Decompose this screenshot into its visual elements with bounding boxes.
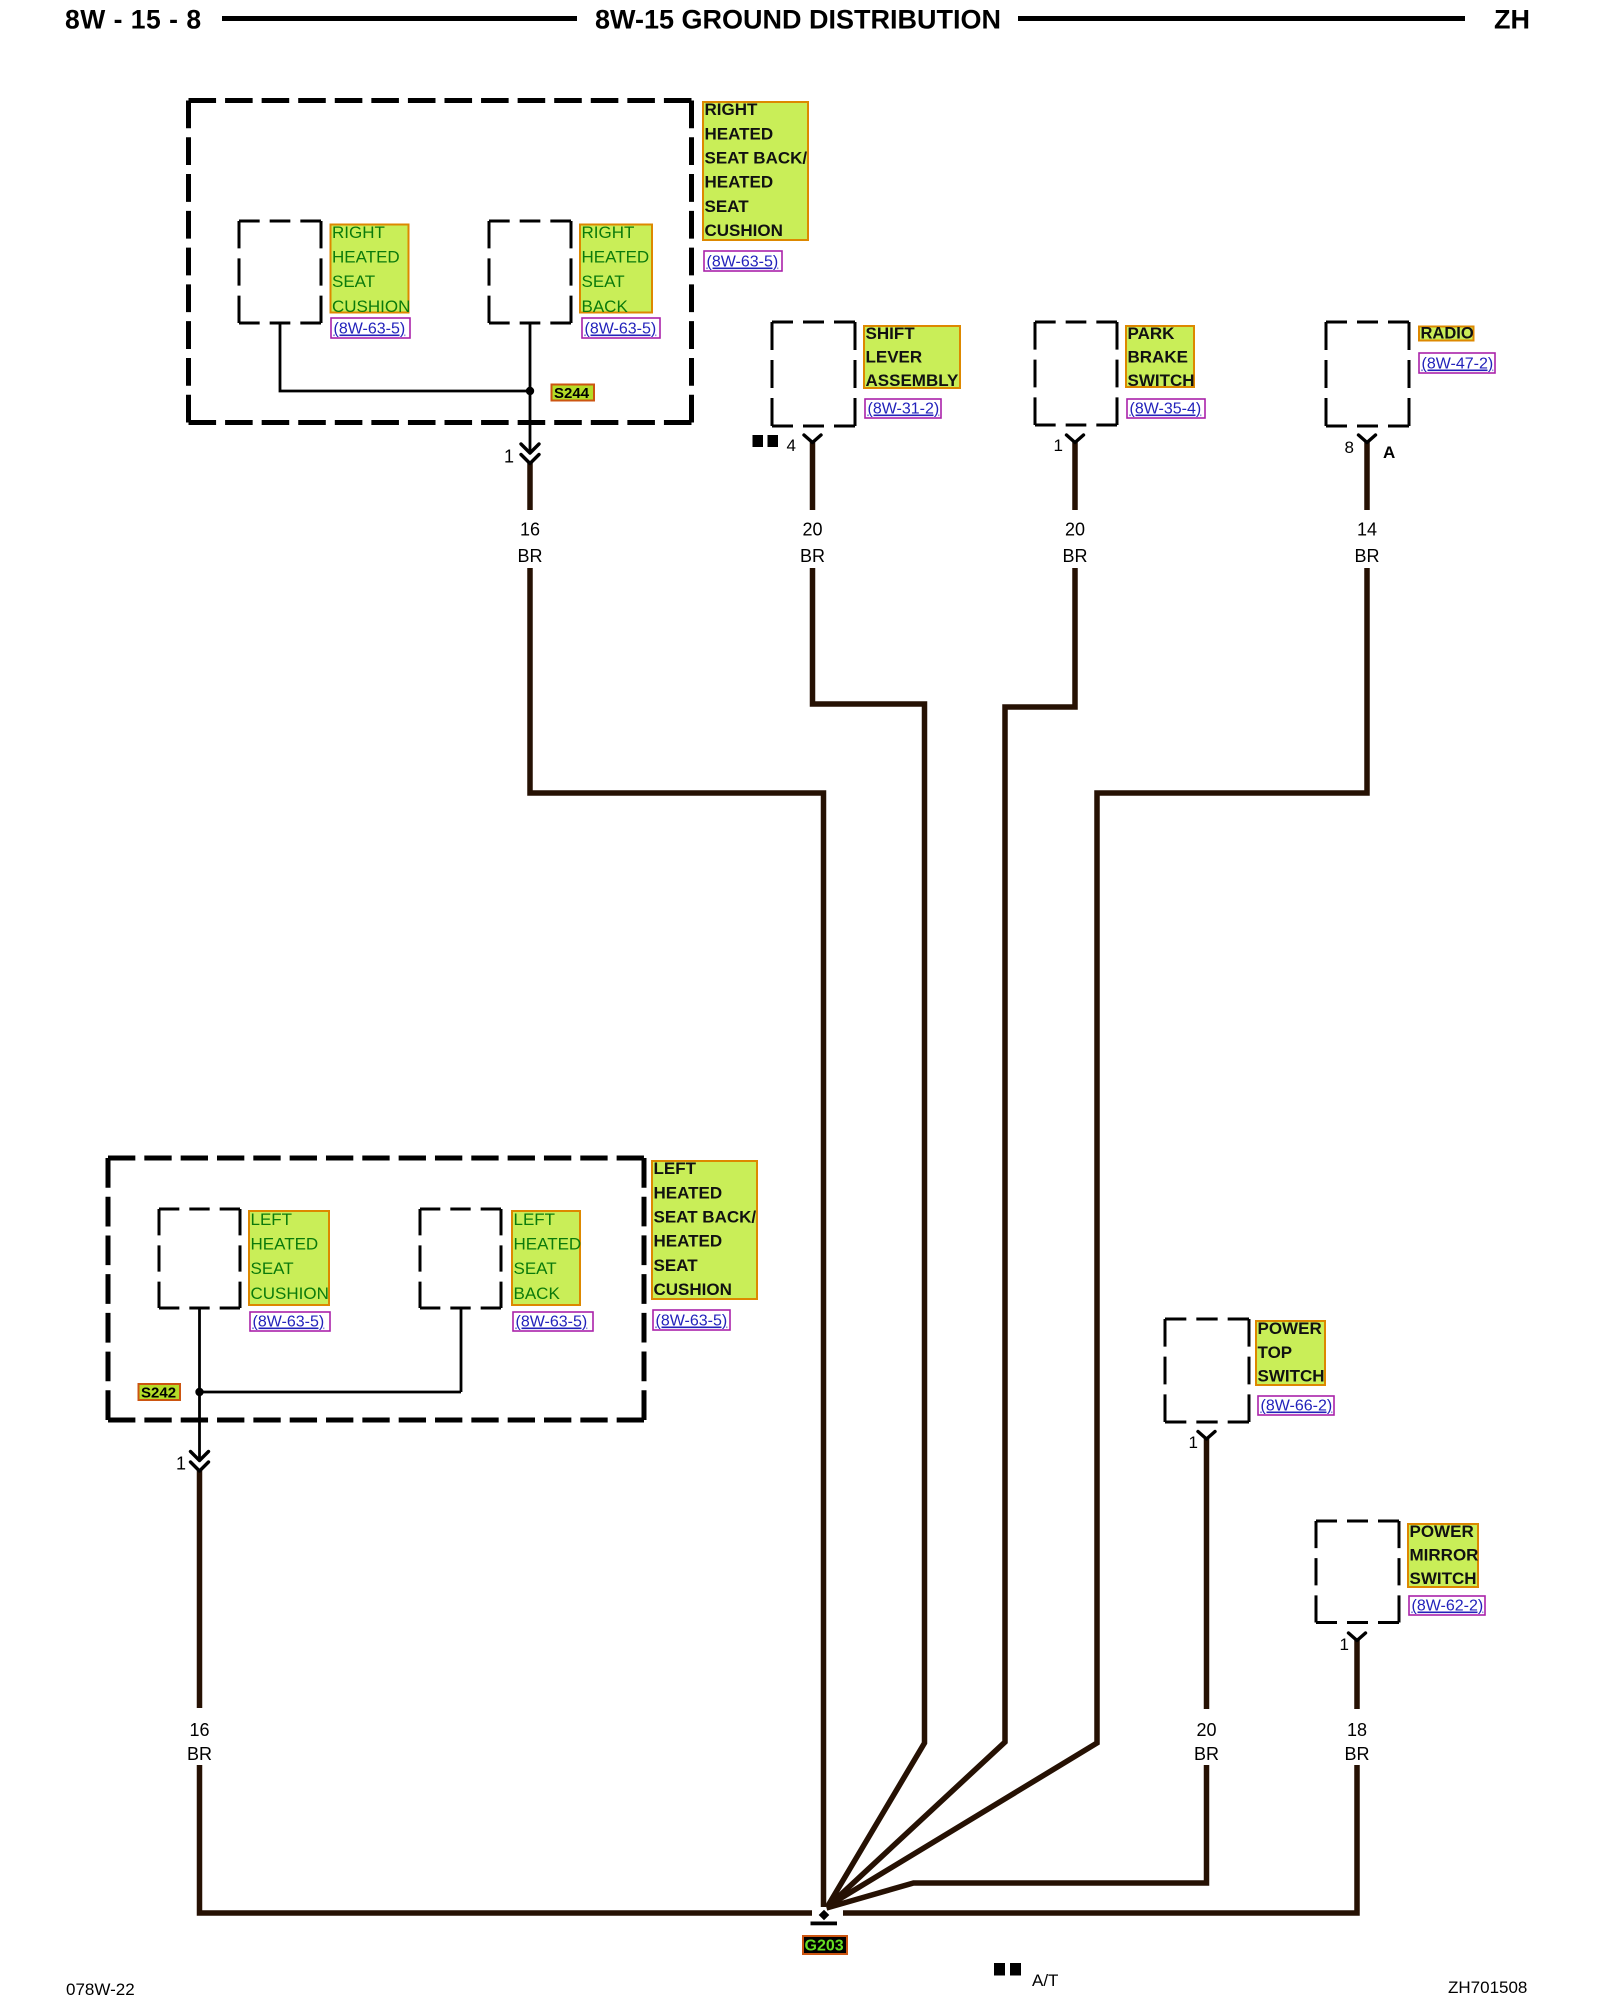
svg-text:S244: S244 [554, 385, 590, 402]
svg-text:RIGHT: RIGHT [332, 223, 385, 242]
svg-text:CUSHION: CUSHION [705, 221, 783, 240]
svg-text:SHIFT: SHIFT [866, 324, 916, 343]
svg-text:HEATED: HEATED [654, 1232, 723, 1251]
svg-text:(8W-63-5): (8W-63-5) [656, 1313, 728, 1330]
svg-text:MIRROR: MIRROR [1410, 1546, 1479, 1565]
svg-text:(8W-31-2): (8W-31-2) [868, 401, 940, 418]
svg-text:16: 16 [189, 1720, 209, 1740]
svg-text:ZH701508: ZH701508 [1448, 1978, 1527, 1997]
svg-text:TOP: TOP [1258, 1343, 1293, 1362]
svg-text:1: 1 [504, 447, 514, 467]
svg-text:(8W-63-5): (8W-63-5) [516, 1314, 588, 1331]
svg-text:BR: BR [517, 546, 542, 566]
svg-text:(8W-66-2): (8W-66-2) [1261, 1398, 1333, 1415]
svg-text:LEFT: LEFT [654, 1159, 697, 1178]
svg-text:POWER: POWER [1410, 1522, 1474, 1541]
svg-text:8W - 15 - 8: 8W - 15 - 8 [65, 5, 202, 35]
svg-text:HEATED: HEATED [705, 124, 774, 143]
svg-text:(8W-63-5): (8W-63-5) [253, 1314, 325, 1331]
svg-text:SEAT: SEAT [514, 1259, 557, 1278]
svg-text:HEATED: HEATED [332, 248, 400, 267]
svg-text:078W-22: 078W-22 [66, 1980, 135, 1999]
svg-text:CUSHION: CUSHION [332, 297, 410, 316]
svg-text:HEATED: HEATED [654, 1183, 723, 1202]
svg-text:LEVER: LEVER [866, 347, 923, 366]
svg-text:HEATED: HEATED [705, 173, 774, 192]
svg-text:1: 1 [1054, 436, 1063, 455]
svg-text:(8W-62-2): (8W-62-2) [1412, 1598, 1484, 1615]
svg-text:LEFT: LEFT [251, 1210, 293, 1229]
svg-text:SEAT BACK/: SEAT BACK/ [705, 149, 808, 168]
svg-text:HEATED: HEATED [251, 1235, 319, 1254]
svg-text:CUSHION: CUSHION [251, 1284, 329, 1303]
svg-text:SEAT: SEAT [582, 272, 625, 291]
svg-text:(8W-35-4): (8W-35-4) [1130, 401, 1202, 418]
svg-text:A/T: A/T [1032, 1971, 1058, 1990]
svg-text:BRAKE: BRAKE [1128, 347, 1188, 366]
svg-text:RADIO: RADIO [1421, 325, 1474, 343]
svg-text:20: 20 [1065, 520, 1085, 540]
svg-text:HEATED: HEATED [582, 248, 650, 267]
svg-text:BACK: BACK [514, 1284, 561, 1303]
svg-text:BACK: BACK [582, 297, 629, 316]
svg-text:20: 20 [802, 520, 822, 540]
svg-text:G203: G203 [805, 1938, 844, 1955]
svg-text:20: 20 [1196, 1720, 1216, 1740]
svg-text:SEAT: SEAT [654, 1256, 699, 1275]
svg-text:(8W-63-5): (8W-63-5) [707, 254, 779, 271]
svg-text:PARK: PARK [1128, 324, 1176, 343]
svg-text:POWER: POWER [1258, 1319, 1322, 1338]
svg-text:A: A [1383, 443, 1395, 462]
svg-text:8W-15 GROUND DISTRIBUTION: 8W-15 GROUND DISTRIBUTION [595, 5, 1001, 35]
svg-text:RIGHT: RIGHT [705, 100, 759, 119]
svg-text:4: 4 [787, 436, 796, 455]
svg-text:S242: S242 [141, 1385, 176, 1402]
svg-text:SEAT: SEAT [332, 272, 375, 291]
svg-text:18: 18 [1347, 1720, 1367, 1740]
svg-text:(8W-47-2): (8W-47-2) [1422, 356, 1494, 373]
svg-text:1: 1 [176, 1454, 186, 1474]
svg-text:(8W-63-5): (8W-63-5) [585, 321, 657, 338]
svg-text:SEAT: SEAT [251, 1259, 294, 1278]
svg-text:BR: BR [1062, 546, 1087, 566]
svg-text:SEAT BACK/: SEAT BACK/ [654, 1208, 757, 1227]
svg-text:(8W-63-5): (8W-63-5) [334, 321, 406, 338]
svg-text:BR: BR [187, 1744, 212, 1764]
svg-text:8: 8 [1345, 438, 1354, 457]
svg-text:RIGHT: RIGHT [582, 223, 635, 242]
svg-text:BR: BR [1354, 546, 1379, 566]
svg-text:14: 14 [1357, 520, 1377, 540]
svg-text:1: 1 [1340, 1635, 1349, 1654]
svg-text:BR: BR [1344, 1744, 1369, 1764]
svg-text:SWITCH: SWITCH [1410, 1569, 1477, 1588]
svg-text:SWITCH: SWITCH [1128, 371, 1195, 390]
svg-text:1: 1 [1189, 1433, 1198, 1452]
svg-text:SWITCH: SWITCH [1258, 1366, 1325, 1385]
svg-text:ASSEMBLY: ASSEMBLY [866, 371, 960, 390]
svg-text:BR: BR [1194, 1744, 1219, 1764]
svg-text:BR: BR [800, 546, 825, 566]
svg-text:16: 16 [520, 520, 540, 540]
svg-text:CUSHION: CUSHION [654, 1280, 732, 1299]
svg-text:LEFT: LEFT [514, 1210, 556, 1229]
svg-text:SEAT: SEAT [705, 197, 750, 216]
svg-text:ZH: ZH [1494, 5, 1530, 35]
svg-text:HEATED: HEATED [514, 1235, 582, 1254]
